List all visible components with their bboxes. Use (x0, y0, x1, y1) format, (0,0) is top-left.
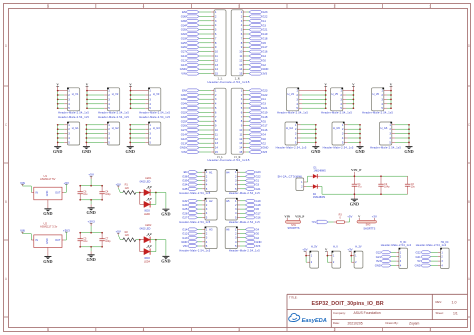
value label Header-Male-2.54_1x5 (H_V1) (58, 110, 89, 114)
svg-text:ESP32_DOIT_30pins_IO_BR: ESP32_DOIT_30pins_IO_BR (312, 301, 384, 307)
junction H_V2 pin 2 (86, 94, 88, 96)
ground symbol H_G5 (355, 142, 364, 154)
wire 2_R pin 6 to G19 (243, 33, 249, 35)
wire G32 to 2_L pin 6 (199, 33, 214, 35)
header H1 body (205, 169, 217, 191)
junction H_V (327, 255, 329, 257)
label H6 (226, 228, 230, 232)
junction H_V6 pin 5 (390, 107, 392, 109)
net flag G16 (H5) (245, 215, 261, 219)
ground symbol at U2 (43, 251, 52, 263)
svg-text:G36: G36 (181, 14, 187, 18)
net flag G16 (249, 128, 268, 132)
pin numbers H2_IIC (441, 251, 443, 267)
svg-text:G35: G35 (182, 187, 188, 191)
voltage regulator U2 body (34, 235, 62, 248)
junction right (155, 192, 157, 194)
svg-text:G27: G27 (181, 50, 187, 54)
jumper SH1 designator (291, 224, 296, 227)
net flag G5 (249, 119, 266, 123)
svg-text:Header-Male-2.54_1x5: Header-Male-2.54_1x5 (139, 115, 170, 119)
svg-text:LED4: LED4 (144, 260, 151, 263)
wire G22 to H2_IIC pin 1 (431, 251, 441, 253)
wire to ground (R1 branch) (156, 193, 166, 209)
pin numbers 2_L (215, 10, 219, 76)
svg-text:10: 10 (215, 50, 219, 54)
ground symbol H_G2 (82, 142, 91, 154)
svg-text:GND: GND (86, 257, 95, 262)
value label Header-Male-2.54_1x5 (H_G1) (58, 115, 89, 119)
svg-text:13: 13 (239, 141, 243, 145)
net flag G4 (249, 133, 266, 137)
capacitor C3 (405, 176, 410, 194)
junction H_G4 pin 1 (315, 124, 317, 126)
wire bottom rail to ground (C6/C4) (90, 200, 92, 205)
svg-text:G16: G16 (262, 50, 268, 54)
net flag GND (249, 67, 268, 71)
net flag G22 (H_IIC) (376, 250, 391, 254)
svg-text:G2: G2 (255, 236, 259, 240)
net flag G17 (249, 45, 268, 49)
svg-text:Header-Male-2.54_1x5: Header-Male-2.54_1x5 (229, 220, 260, 224)
net flag G17 (H5) (245, 211, 261, 215)
header H6 body (225, 227, 238, 249)
wire left branch down (140, 240, 144, 252)
label H_V (333, 245, 338, 248)
svg-text:G2: G2 (262, 141, 266, 145)
svg-text:OUT: OUT (55, 239, 61, 242)
svg-text:104p: 104p (105, 193, 111, 196)
wire G35 to H1 pin 5 (198, 188, 205, 190)
header H2_IIC body (440, 248, 449, 269)
svg-text:G32: G32 (181, 32, 187, 36)
svg-text:SH3: SH3 (366, 224, 371, 227)
wire H_V6 pin 2 (384, 94, 391, 96)
wire GND to 15_L pin 14 (199, 147, 214, 149)
wire H_G2 pin 3 (86, 133, 107, 135)
wire bus V H_V6 (390, 91, 392, 109)
value label Header-Male-2.54_1x5 (H_G3) (139, 115, 170, 119)
junction H_G2 pin 4 (86, 137, 88, 139)
svg-text:GND: GND (180, 146, 186, 150)
junction right (155, 239, 157, 241)
border zone ticks left/right (4, 86, 471, 317)
svg-text:GND: GND (262, 146, 268, 150)
pin numbers H6 (235, 227, 237, 248)
net flag G0 (249, 137, 266, 141)
pin numbers H_G6 (389, 123, 391, 145)
wire R3 to +5V (344, 218, 349, 222)
wire 2_R pin 14 to GND (243, 68, 249, 70)
svg-text:G26: G26 (182, 211, 188, 215)
svg-text:LED0: LED0 (144, 213, 151, 216)
header H_5V body (310, 251, 319, 268)
label H_5V (311, 245, 318, 248)
svg-text:GND: GND (415, 264, 421, 268)
wire G14 to 15_L pin 11 (199, 133, 214, 135)
wire H5 pin 4 to G17 (237, 212, 245, 214)
label H_V2 (112, 92, 119, 96)
junction H_V2 pin 5 (86, 107, 88, 109)
power flag V for H_V5 (352, 83, 355, 91)
svg-text:3: 3 (238, 328, 240, 332)
svg-text:G14: G14 (181, 54, 187, 58)
wire 2_R pin 1 to G23 (243, 11, 249, 13)
net flag G5 (249, 41, 266, 45)
power flag V for H_V2 (86, 83, 89, 91)
junction H_G4 pin 2 (315, 128, 317, 130)
wire H_V6 pin 5 (384, 107, 391, 109)
header H_G5 body (332, 122, 345, 145)
net flag G4 (249, 54, 266, 58)
pin numbers 2_R (239, 10, 243, 76)
net flag G18 (H5) (245, 203, 261, 207)
wire H4 pin 5 to G21 (237, 188, 245, 190)
svg-text:G22: G22 (255, 174, 261, 178)
wire 5V to H2_IIC pin 3 (431, 260, 441, 262)
wire G12 to H3 pin 2 (198, 233, 205, 235)
wire H_G4 pin 5 (297, 141, 316, 143)
svg-text:G25: G25 (182, 207, 188, 211)
power flag V for H_V6 (390, 83, 393, 91)
wire bottom rail (cap pair C6/C4) (80, 199, 102, 201)
svg-text:G17: G17 (262, 124, 268, 128)
svg-text:11: 11 (239, 54, 242, 58)
svg-text:G34: G34 (181, 102, 187, 106)
wire H_V6 pin 4 (384, 103, 391, 105)
svg-text:12: 12 (239, 137, 243, 141)
wire 3V3 to H_IIC pin 3 (391, 260, 399, 262)
svg-text:H_G1: H_G1 (72, 126, 79, 130)
wire H_G1 pin 2 (58, 128, 68, 130)
junction H_G2 pin 1 (86, 124, 88, 126)
svg-text:G22: G22 (415, 250, 421, 254)
wire G32 to 15_L pin 6 (199, 111, 214, 113)
svg-text:Header-Male-2.54_1x5: Header-Male-2.54_1x5 (58, 115, 89, 119)
ground symbol (R2 branch) (161, 256, 170, 264)
wire H_G3 pin 4 (130, 137, 148, 139)
wire G35 to 2_L pin 5 (199, 29, 214, 31)
net flag G39 (181, 97, 200, 101)
svg-text:G12: G12 (181, 137, 187, 141)
wire 2_R pin 2 to G22 (243, 15, 249, 17)
wire G13 to 15_L pin 13 (199, 142, 214, 144)
net flag G35 (181, 106, 200, 110)
jumper SH3 labels V / +3V (358, 214, 377, 218)
wire 15_R pin 15 to 3V3 (243, 151, 249, 153)
LED LED4 value (144, 257, 150, 260)
svg-text:G18: G18 (262, 115, 268, 119)
svg-text:H_V4: H_V4 (288, 92, 295, 96)
svg-text:G34: G34 (181, 23, 187, 27)
wire G33 to 15_L pin 7 (199, 116, 214, 118)
net flag VIN (H3) (183, 244, 198, 248)
net flag EN (182, 10, 199, 14)
svg-text:GND: GND (180, 67, 186, 71)
net flag G36 (181, 14, 200, 18)
capacitor C7 designator/value (105, 237, 111, 243)
svg-text:G32: G32 (181, 111, 187, 115)
net flag G32 (181, 32, 200, 36)
svg-text:G27: G27 (181, 128, 187, 132)
junction dots (cap pair C6/C4) (79, 185, 103, 201)
wire H_V6 pin 3 (384, 98, 391, 100)
wire 15_R pin 12 to G0 (243, 138, 249, 140)
value label Header-Male-2.54_1x5 (H_G2) (98, 115, 129, 119)
wire H6 pin 5 to 3V3 (237, 245, 245, 247)
net flag G12 (181, 59, 200, 63)
net flag 5V (H2_IIC) (417, 259, 430, 263)
svg-text:47u: 47u (358, 186, 363, 189)
net flag G39 (H1) (182, 179, 197, 183)
svg-text:EN: EN (182, 10, 186, 14)
header H4 body (225, 169, 238, 191)
svg-text:2: 2 (334, 328, 336, 332)
wire H5 pin 2 to G18 (237, 204, 245, 206)
EasyEDA logo text (302, 318, 327, 324)
svg-text:1N6148WS: 1N6148WS (313, 196, 326, 199)
svg-text:14: 14 (215, 67, 219, 71)
label H_V1 (72, 92, 79, 96)
svg-text:G23: G23 (262, 10, 268, 14)
value label Header-Male-2.54_1x4 (H_IIC) (381, 243, 412, 247)
wire GND to 2_L pin 14 (199, 68, 214, 70)
junction H_G1 pin 4 (57, 137, 59, 139)
capacitor C2 (378, 176, 383, 194)
junction top rail center (C6/C4) (90, 185, 92, 187)
value label Header-Male-2.54_1x5 (H_G6) (370, 145, 401, 149)
svg-text:Header-Male-2.54_1x5: Header-Male-2.54_1x5 (179, 220, 210, 224)
svg-text:0402 LED: 0402 LED (140, 180, 151, 183)
wire G34 to 15_L pin 4 (199, 103, 214, 105)
wire G33 to 2_L pin 7 (199, 37, 214, 39)
net flag G12 (H3) (182, 232, 197, 236)
label H5 (226, 199, 230, 203)
wire LED4 cathode (150, 240, 156, 252)
svg-text:G21: G21 (376, 255, 382, 259)
jumper SH1 VIN-VIN_P labels (284, 214, 304, 218)
power flag V for H_V4 (324, 83, 327, 91)
svg-text:3: 3 (238, 5, 240, 9)
svg-text:G36: G36 (181, 93, 187, 97)
svg-text:G17: G17 (255, 211, 261, 215)
svg-text:H_3V: H_3V (355, 245, 362, 248)
junction H_V1 pin 5 (57, 107, 59, 109)
pin numbers H_G1 (68, 123, 70, 145)
svg-text:11: 11 (215, 132, 218, 136)
wire H_G3 pin 3 (130, 133, 148, 135)
svg-text:GND: GND (161, 212, 170, 217)
net flag G5 (H5) (245, 207, 259, 211)
junction H_G2 pin 3 (86, 133, 88, 135)
svg-text:H_G2: H_G2 (112, 126, 119, 130)
svg-text:G1: G1 (255, 179, 259, 183)
label H_G5 (333, 126, 340, 130)
net flag G25 (H2) (182, 207, 197, 211)
pin numbers 15_L (215, 88, 219, 154)
wire H_G5 pin 5 (344, 141, 360, 143)
svg-text:104p: 104p (384, 186, 390, 189)
power flag +5V (H_5V) (302, 248, 307, 256)
svg-text:5V: 5V (417, 259, 421, 263)
label H_V3 (153, 92, 160, 96)
junction left (R1) (139, 192, 141, 194)
svg-text:GND: GND (53, 149, 62, 154)
svg-text:G0: G0 (262, 59, 266, 63)
value label Header-Male-2.54_1x5 (H2) (179, 220, 210, 224)
wire LED0 cathode (150, 193, 156, 205)
svg-text:G33: G33 (182, 203, 188, 207)
svg-text:H_V5: H_V5 (332, 92, 339, 96)
border zone ticks bottom (48, 328, 430, 332)
power flag V (H_V) (325, 248, 328, 256)
net flag G4 (H6) (245, 228, 259, 232)
wire H_V2 pin 5 (87, 107, 107, 109)
svg-text:104p: 104p (105, 240, 111, 243)
capacitor C3 designator/value (411, 183, 416, 189)
junction H_V1 pin 4 (57, 103, 59, 105)
svg-text:G14: G14 (181, 133, 187, 137)
resistor R3 body (337, 221, 345, 224)
svg-text:Header-Male-2.54_1x5: Header-Male-2.54_1x5 (179, 191, 210, 195)
junction H_V6 pin 2 (390, 94, 392, 96)
Date row (333, 321, 420, 325)
svg-text:G23: G23 (255, 170, 261, 174)
wire 2_R pin 10 to G16 (243, 51, 249, 53)
svg-text:5: 5 (47, 5, 49, 9)
wire G14 to 2_L pin 11 (199, 55, 214, 57)
wire bus H_3V (350, 256, 352, 263)
power flag +5V at R3 (347, 214, 352, 218)
junction H_V4 pin 3 (325, 99, 327, 101)
net flag VCC (7CV) (312, 220, 329, 224)
wire bus H_V (326, 256, 328, 263)
svg-text:G3: G3 (255, 183, 259, 187)
pin numbers H5 (235, 199, 237, 220)
capacitor C5 designator/value (83, 237, 88, 243)
Company row (333, 311, 381, 315)
wire H_V5 pin 2 (343, 94, 354, 96)
svg-text:12: 12 (215, 58, 219, 62)
resistor R2 (123, 238, 136, 242)
net flag G14 (H3) (182, 228, 197, 232)
net flag G21 (H2_IIC) (415, 255, 430, 259)
value label Header-Male-2.54_1x5 (H3) (179, 248, 210, 252)
junction H_V2 pin 4 (86, 103, 88, 105)
net flag G12 (181, 137, 200, 141)
wire 2_R pin 12 to G0 (243, 59, 249, 61)
wire H_V5 pin 1 (343, 90, 354, 92)
net flag GND (H2_IIC) (415, 264, 431, 268)
net flag G32 (181, 111, 200, 115)
wire H_V3 pin 4 (131, 103, 149, 105)
capacitor C5 (78, 233, 83, 247)
wire G32 to H2 pin 1 (198, 200, 205, 202)
header H_V2 body (107, 88, 120, 111)
svg-text:GND: GND (355, 149, 364, 154)
wire +5V to R2 (118, 233, 123, 240)
power flag V for H_V1 (56, 83, 59, 91)
pin numbers H_G3 (149, 123, 151, 145)
wire H_V3 pin 5 (131, 107, 149, 109)
pin numbers H_V5 (340, 89, 342, 111)
wire H_G5 pin 1 (344, 124, 360, 126)
svg-text:G1: G1 (262, 19, 266, 23)
junction H_G1 pin 5 (57, 142, 59, 144)
designators 15_L 15_R (217, 155, 241, 159)
svg-text:Header-Male-2.54_1x5: Header-Male-2.54_1x5 (370, 145, 401, 149)
net flag G26 (H2) (182, 211, 197, 215)
wire 2_R pin 13 to G2 (243, 64, 249, 66)
wire U2 GND pin (47, 248, 49, 252)
wire H_V1 pin 3 (58, 98, 68, 100)
wire H_V5 pin 4 (343, 103, 354, 105)
wire H_V2 pin 4 (87, 103, 107, 105)
svg-text:120: 120 (125, 187, 130, 190)
junction H_V4 pin 4 (325, 103, 327, 105)
junction H_G6 pin 5 (408, 142, 410, 144)
svg-text:VIN: VIN (181, 72, 186, 76)
wire G36 to 15_L pin 2 (199, 94, 214, 96)
power flag +5V (R2 LED branch) (116, 230, 121, 234)
wire bus V H_V1 (57, 91, 59, 109)
label H_V5 (332, 92, 339, 96)
wire 15_R pin 14 to GND (243, 147, 249, 149)
svg-text:GND: GND (262, 67, 268, 71)
wire 15_R pin 2 to G22 (243, 94, 249, 96)
wire G34 to 2_L pin 4 (199, 24, 214, 26)
svg-text:H_G3: H_G3 (153, 126, 160, 130)
net flag G19 (249, 111, 268, 115)
wire bus V H_V5 (352, 91, 354, 109)
wire H_G1 pin 5 (58, 141, 68, 143)
svg-text:Header-Female-2.54_1x15: Header-Female-2.54_1x15 (207, 158, 249, 162)
junction H_G3 pin 2 (129, 128, 131, 130)
junction H_V2 pin 1 (86, 90, 88, 92)
capacitor C6 designator/value (83, 190, 88, 196)
connector CN1 5H-2A_CT3WH label (278, 174, 303, 178)
jumper SH3 pins (359, 218, 374, 221)
wire G39 to 2_L pin 3 (199, 20, 214, 22)
net flag GND (H_IIC) (375, 264, 391, 268)
svg-text:H_V2: H_V2 (112, 92, 119, 96)
wire G33 to H2 pin 2 (198, 204, 205, 206)
junction H_G3 pin 4 (129, 137, 131, 139)
svg-text:H3: H3 (209, 228, 213, 232)
svg-text:G0: G0 (255, 232, 259, 236)
svg-text:5: 5 (47, 328, 49, 332)
junction H_V5 pin 4 (353, 103, 355, 105)
wire EN to H1 pin 1 (198, 171, 205, 173)
wire G26 to H2 pin 4 (198, 212, 205, 214)
wire CN1 pin1 to D1 (304, 176, 313, 182)
junction H_G2 pin 2 (86, 128, 88, 130)
net flag G22 (H2_IIC) (415, 250, 430, 254)
power flag +3V3 (cap pair C5/C7) (87, 220, 95, 226)
junction H_3V (350, 255, 352, 257)
LED LED4 designator (144, 260, 151, 263)
net flag G21 (249, 106, 268, 110)
wire 15_R pin 7 to G18 (243, 116, 249, 118)
wire bus GND H_G2 (85, 125, 87, 143)
net flag G33 (H2) (182, 203, 197, 207)
wire EN to 15_L pin 1 (199, 89, 214, 91)
wire H_G6 pin 2 (392, 128, 409, 130)
ground symbol H_G3 (126, 142, 135, 154)
pin numbers H4 (235, 170, 237, 191)
REV label (436, 300, 457, 304)
wire VCC flag to R3 (328, 221, 337, 223)
